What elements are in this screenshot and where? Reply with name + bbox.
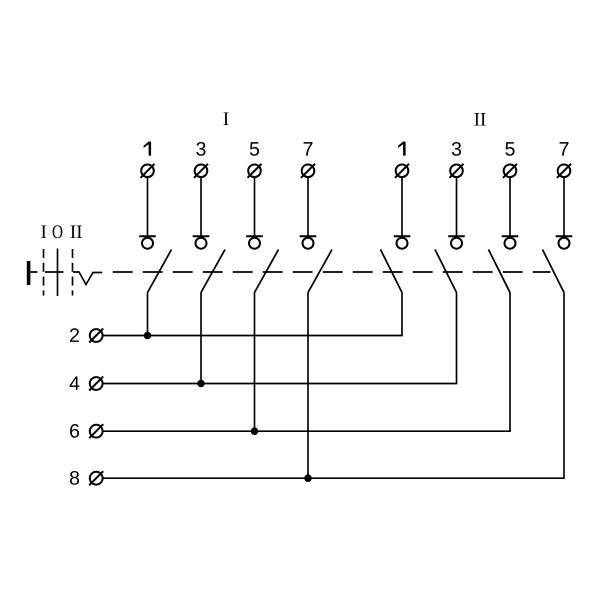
wire: bus row 4 xyxy=(103,383,457,385)
fixed contact II-5 (bar and open circle) xyxy=(502,236,519,248)
label II xyxy=(71,226,82,238)
wire: blade II-7 down to bus xyxy=(563,293,565,479)
junction dot I-3 xyxy=(197,380,205,388)
wire: blade II-5 down to bus xyxy=(509,293,511,432)
pin label 5 (group II) xyxy=(505,142,514,156)
pin label 3 (group I) xyxy=(196,142,205,156)
fixed contact I-1 (bar and open circle) xyxy=(139,236,156,248)
wire: terminal I-5 down to fixed contact xyxy=(254,177,256,236)
wire: bus row 6 xyxy=(103,430,510,432)
terminal I-3 (circle with slash) xyxy=(194,164,208,178)
pin label 1 (group I) xyxy=(144,142,152,156)
label O xyxy=(53,225,63,238)
pin label 4 xyxy=(70,376,80,389)
operating handle lever (thick bar) xyxy=(27,261,31,285)
fixed contact I-5 (bar and open circle) xyxy=(246,236,263,248)
switch blade II-1 xyxy=(381,250,403,293)
switch blade II-7 xyxy=(543,250,565,293)
switch blade I-3 xyxy=(201,250,225,293)
pin label 3 (group II) xyxy=(452,142,461,156)
handle link line with detent V notch xyxy=(30,272,102,285)
fixed contact I-7 (bar and open circle) xyxy=(300,236,317,248)
wire: terminal II-3 down to fixed contact xyxy=(456,177,458,236)
switch blade I-5 xyxy=(255,250,279,293)
pin label 7 (group I) xyxy=(304,142,313,155)
terminal I-5 (circle with slash) xyxy=(248,164,262,178)
pin label 8 xyxy=(70,471,79,485)
terminal II-3 (circle with slash) xyxy=(450,164,464,178)
wire: blade I-5 down to bus xyxy=(254,293,256,432)
wire: terminal II-7 down to fixed contact xyxy=(563,177,565,236)
wire: terminal I-3 down to fixed contact xyxy=(200,177,202,236)
position line I (dashed) xyxy=(43,249,45,296)
label I xyxy=(41,226,46,238)
switch blade II-5 xyxy=(489,250,511,293)
terminal 8 (circle with slash) xyxy=(89,471,103,485)
pin label 6 xyxy=(70,424,79,438)
switch blade I-1 xyxy=(148,250,172,293)
pin label 1 (group II) xyxy=(398,142,406,156)
group label I xyxy=(224,113,229,125)
terminal 2 (circle with slash) xyxy=(89,329,103,343)
wire: blade II-3 down to bus xyxy=(456,293,458,384)
mechanical linkage (dashed coupling line) xyxy=(113,271,551,273)
pin label 5 (group I) xyxy=(250,142,259,156)
group label II xyxy=(474,113,485,125)
wire: blade II-1 down to bus xyxy=(401,293,403,336)
terminal 6 (circle with slash) xyxy=(89,424,103,438)
fixed contact II-3 (bar and open circle) xyxy=(448,236,465,248)
fixed contact II-7 (bar and open circle) xyxy=(556,236,573,248)
wire: blade I-1 down to bus xyxy=(147,293,149,336)
terminal II-7 (circle with slash) xyxy=(557,164,571,178)
pin label 7 (group II) xyxy=(560,142,569,155)
wire: terminal II-1 down to fixed contact xyxy=(401,177,403,236)
terminal II-1 (circle with slash) xyxy=(395,164,409,178)
terminal 4 (circle with slash) xyxy=(89,377,103,391)
terminal I-1 (circle with slash) xyxy=(141,164,155,178)
terminal II-5 (circle with slash) xyxy=(503,164,517,178)
switch blade I-7 xyxy=(308,250,332,293)
wire: blade I-7 down to bus xyxy=(307,293,309,479)
position line O (solid) xyxy=(57,249,59,297)
wire: terminal II-5 down to fixed contact xyxy=(509,177,511,236)
wire: blade I-3 down to bus xyxy=(200,293,202,384)
wire: terminal I-1 down to fixed contact xyxy=(147,177,149,236)
wire: terminal I-7 down to fixed contact xyxy=(307,177,309,236)
junction dot I-7 xyxy=(304,474,312,482)
wire: bus row 2 xyxy=(103,335,402,337)
fixed contact I-3 (bar and open circle) xyxy=(193,236,210,248)
pin label 2 xyxy=(70,328,79,342)
wire: bus row 8 xyxy=(103,477,564,479)
junction dot I-5 xyxy=(251,427,259,435)
switch blade II-3 xyxy=(435,250,457,293)
position line II (dashed) xyxy=(72,249,74,296)
terminal I-7 (circle with slash) xyxy=(301,164,315,178)
junction dot I-1 xyxy=(144,332,152,340)
fixed contact II-1 (bar and open circle) xyxy=(394,236,411,248)
